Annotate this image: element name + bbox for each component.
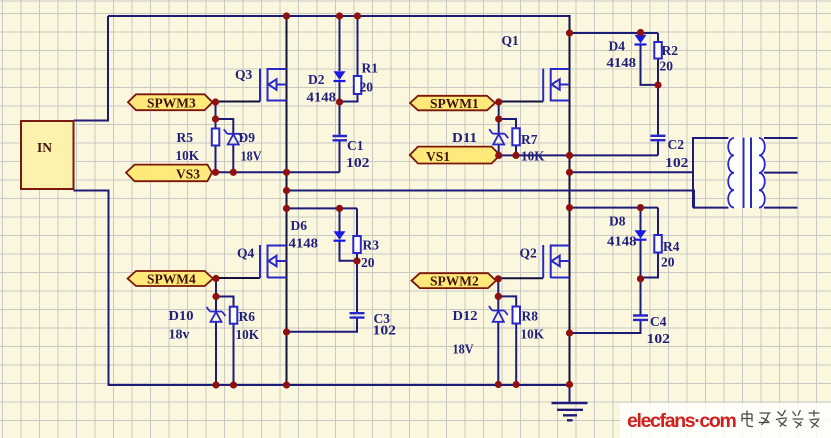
svg-text:C1: C1 (347, 138, 364, 153)
net label SPWM3 (128, 94, 213, 110)
diode D4 (635, 35, 647, 45)
capacitor C1 (333, 136, 348, 140)
wire IN top lead (74, 16, 109, 121)
wire right half-bridge bus (569, 15, 571, 385)
transformer T1 primary winding (728, 138, 734, 208)
wire D6 R3 branch (287, 207, 358, 209)
wire D10 top lead (215, 279, 217, 312)
wire R8 bottom lead (515, 324, 517, 385)
svg-text:elecfans·com: elecfans·com (627, 410, 736, 432)
svg-text:Q1: Q1 (502, 33, 520, 48)
svg-text:102: 102 (665, 155, 689, 170)
wire R3 leads (356, 208, 358, 313)
resistor R4 (654, 235, 662, 253)
transformer T1 secondary winding (759, 138, 765, 208)
svg-text:IN: IN (37, 140, 52, 155)
resistor R2 (654, 42, 662, 59)
net label SPWM1 (410, 96, 495, 111)
net label SPWM2 (412, 273, 496, 288)
svg-text:20: 20 (361, 255, 375, 270)
svg-text:C4: C4 (650, 314, 667, 329)
svg-text:R2: R2 (662, 43, 679, 58)
svg-text:R4: R4 (663, 239, 680, 254)
wire left half-bridge bus (286, 15, 288, 385)
svg-text:VS3: VS3 (176, 166, 200, 181)
svg-text:18V: 18V (453, 342, 474, 357)
zener D12 (489, 306, 508, 322)
transistor Q1 (543, 68, 569, 102)
elecfans.com logo (627, 410, 736, 432)
wire VS1 rail (496, 154, 658, 156)
svg-text:10K: 10K (521, 327, 545, 342)
zener D11 (489, 129, 508, 144)
svg-text:4148: 4148 (289, 236, 319, 251)
wire D10 bottom lead (215, 322, 217, 386)
resistor R7 (512, 128, 520, 145)
port IN (21, 121, 74, 189)
wire D4 bottom lead (641, 44, 659, 85)
wire rail to transformer top (570, 138, 729, 172)
svg-text:102: 102 (373, 323, 397, 338)
svg-text:18v: 18v (169, 327, 190, 342)
wire D9 jog (216, 119, 234, 133)
resistor R5 (212, 129, 220, 146)
wire R1 leads (340, 16, 358, 102)
capacitor C4 (633, 316, 648, 320)
svg-text:SPWM2: SPWM2 (430, 274, 479, 289)
wire VS3 rail (215, 171, 340, 173)
svg-text:20: 20 (660, 59, 674, 74)
wire R2 leads (657, 33, 659, 136)
wire R5 top lead (215, 102, 217, 129)
transistor Q2 (543, 245, 569, 279)
wire R4 leads (641, 208, 659, 278)
diode D2 (334, 71, 346, 81)
transistor Q4 (260, 245, 287, 279)
svg-text:R8: R8 (522, 309, 539, 324)
svg-text:10K: 10K (176, 148, 200, 163)
svg-text:Q3: Q3 (235, 67, 253, 82)
wire Q2 gate (498, 277, 543, 279)
wire R6 jog (216, 297, 234, 307)
zener D9 (224, 129, 243, 144)
wire D8 leads (640, 208, 642, 316)
Chinese watermark strokes (742, 410, 820, 428)
diode D8 (635, 230, 647, 239)
svg-text:D11: D11 (452, 130, 477, 145)
wire R7 bottom lead (515, 145, 517, 155)
svg-text:C2: C2 (668, 137, 685, 152)
svg-text:D9: D9 (239, 130, 256, 145)
svg-text:R3: R3 (363, 238, 380, 253)
svg-text:4148: 4148 (607, 55, 637, 70)
resistor R6 (230, 307, 238, 324)
wire C2 bottom lead (657, 140, 659, 155)
svg-text:20: 20 (661, 255, 675, 270)
zener D10 (207, 307, 226, 322)
wire D4 R2 branch (570, 32, 659, 34)
wire R6 bottom lead (233, 324, 235, 385)
svg-text:D6: D6 (291, 218, 308, 233)
svg-text:Q4: Q4 (237, 246, 255, 261)
svg-text:Q2: Q2 (520, 246, 538, 261)
svg-text:18V: 18V (241, 149, 262, 164)
wire D8 R4 branch (570, 207, 659, 209)
wire IN bottom lead and bottom rail (74, 191, 570, 386)
svg-text:102: 102 (647, 331, 671, 346)
svg-text:4148: 4148 (607, 234, 637, 249)
svg-text:D4: D4 (609, 39, 626, 54)
svg-text:R5: R5 (177, 130, 194, 145)
svg-text:D10: D10 (169, 308, 194, 323)
wire C1 bottom lead (339, 141, 341, 173)
capacitor C3 (350, 313, 365, 317)
wire R5 bottom lead (215, 145, 217, 172)
wire R7 jog (499, 119, 516, 128)
wire top rail (108, 15, 570, 17)
svg-text:20: 20 (360, 80, 374, 95)
resistor R8 (513, 307, 521, 324)
ground (552, 403, 588, 420)
wire D11 top lead (498, 102, 500, 133)
wire C3 bottom lead (287, 318, 358, 332)
wire D9 bottom lead (232, 145, 234, 173)
net label VS3 (126, 165, 212, 182)
net label SPWM4 (128, 271, 213, 287)
wire Q3 gate (216, 101, 261, 103)
wire D12 bottom lead (497, 322, 499, 384)
svg-text:SPWM1: SPWM1 (430, 96, 479, 111)
svg-text:R6: R6 (239, 309, 256, 324)
svg-text:D8: D8 (609, 214, 626, 229)
resistor R3 (353, 236, 361, 253)
transformer white background (727, 137, 766, 208)
wire transformer right stubs (764, 138, 798, 208)
svg-text:10K: 10K (236, 327, 260, 342)
svg-text:R1: R1 (362, 61, 379, 76)
wire long rail to transformer bottom (287, 191, 729, 208)
svg-text:SPWM4: SPWM4 (147, 272, 196, 287)
svg-text:102: 102 (346, 155, 370, 170)
svg-text:SPWM3: SPWM3 (147, 96, 196, 111)
wire Q4 gate (216, 277, 260, 279)
watermark background (620, 403, 831, 438)
wire R8 jog (498, 296, 516, 306)
resistor R1 (354, 76, 362, 94)
wire D11 bottom lead (498, 145, 500, 156)
transformer T1 core (744, 138, 752, 209)
wire D6 leads (340, 208, 358, 260)
wire C4 bottom lead (570, 320, 641, 333)
wire Q1 gate (499, 101, 544, 103)
transistor Q3 (260, 68, 287, 102)
diode D6 (334, 231, 346, 240)
wire ground stem (569, 385, 571, 403)
capacitor C2 (651, 136, 666, 140)
svg-text:4148: 4148 (307, 90, 337, 105)
wire D2 leads (339, 16, 341, 136)
svg-text:VS1: VS1 (426, 149, 450, 164)
svg-text:D12: D12 (453, 308, 478, 323)
svg-text:D2: D2 (308, 72, 325, 87)
wire transformer left bracket (692, 138, 694, 208)
wire D12 top lead (497, 279, 499, 310)
svg-text:10K: 10K (521, 149, 545, 164)
svg-text:R7: R7 (521, 132, 538, 147)
net label VS1 (410, 147, 500, 164)
